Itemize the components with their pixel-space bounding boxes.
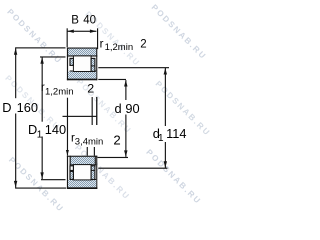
r3,4 leader right xyxy=(94,147,95,156)
d top extension line xyxy=(98,79,126,80)
left edge line xyxy=(67,156,68,189)
B right arrow xyxy=(90,30,97,33)
r3,4 leader left xyxy=(87,147,88,156)
right flange column xyxy=(91,166,95,180)
svg-text:3,4min: 3,4min xyxy=(75,137,104,148)
D1 bottom extension line xyxy=(41,179,66,180)
inner bar bottom line xyxy=(70,164,97,165)
d1 down arrow xyxy=(164,161,167,168)
d bottom extension line xyxy=(98,157,129,158)
B right extension line xyxy=(97,28,98,49)
D bottom extension line xyxy=(15,188,66,189)
d1 bottom extension line xyxy=(98,168,167,169)
top edge line xyxy=(67,48,97,49)
outer ring top bar fill xyxy=(67,49,97,56)
bottom bar top line xyxy=(70,179,97,180)
svg-text:PODSNAB.RU: PODSNAB.RU xyxy=(150,3,209,62)
svg-text:r: r xyxy=(100,38,104,50)
svg-text:114: 114 xyxy=(166,126,186,141)
svg-text:2: 2 xyxy=(140,38,146,50)
d1 dimension line lower part xyxy=(165,142,166,168)
right flange divider line xyxy=(91,65,95,66)
d up arrow xyxy=(124,80,127,87)
d dimension line upper part xyxy=(125,80,126,100)
horizontal leader H xyxy=(63,116,98,117)
svg-text:160: 160 xyxy=(17,100,38,115)
D top extension line xyxy=(15,47,65,48)
right flange divider line xyxy=(91,170,95,171)
D1 top extension line xyxy=(40,56,66,57)
roller (white square) xyxy=(73,165,91,180)
right flange column xyxy=(91,58,95,71)
inner ring top bar fill xyxy=(70,157,95,165)
leader V2 below "2" xyxy=(92,97,93,125)
D up arrow xyxy=(14,48,17,55)
outer bar bottom line xyxy=(67,55,97,56)
inner bar left edge line xyxy=(70,156,71,166)
watermark tile A top-left xyxy=(3,3,212,214)
d down arrow xyxy=(124,150,127,157)
left flange lower dotted part xyxy=(70,171,73,179)
svg-text:1,2min: 1,2min xyxy=(105,42,134,53)
svg-text:1: 1 xyxy=(37,129,43,140)
svg-text:d: d xyxy=(115,101,122,116)
svg-text:B: B xyxy=(71,15,79,27)
d1 up arrow xyxy=(164,68,167,75)
right edge line xyxy=(96,48,97,81)
svg-text:40: 40 xyxy=(83,15,96,27)
inner ring bottom bar fill xyxy=(68,71,96,78)
B dimension line xyxy=(67,31,96,32)
bar top line under roller xyxy=(70,71,97,72)
D1 dimension line lower part xyxy=(42,137,43,180)
top edge line xyxy=(67,156,97,157)
B left extension line xyxy=(67,28,68,47)
V1 down arrow xyxy=(66,150,69,156)
right edge line xyxy=(96,156,97,189)
d1 top extension line xyxy=(98,67,169,68)
roller (white square) xyxy=(73,56,91,72)
svg-text:2: 2 xyxy=(87,82,94,96)
inner bar right edge line xyxy=(95,156,96,166)
svg-text:PODSNAB.RU: PODSNAB.RU xyxy=(144,148,203,207)
D dimension line lower part xyxy=(15,114,16,188)
svg-text:1,2min: 1,2min xyxy=(45,87,74,98)
d1 dimension line upper part xyxy=(165,68,166,126)
leader V1 from r1,2min label to lower section corner xyxy=(67,98,68,156)
left edge line xyxy=(67,48,68,81)
svg-text:90: 90 xyxy=(125,101,139,116)
D down arrow xyxy=(14,181,17,188)
outer ring bottom bar fill xyxy=(68,180,96,188)
svg-text:1: 1 xyxy=(158,133,164,144)
D1 dimension line upper part xyxy=(42,57,43,122)
svg-text:2: 2 xyxy=(113,133,120,148)
svg-text:D: D xyxy=(2,100,11,115)
bottom edge line (thick) xyxy=(67,79,97,81)
left flange block white (loose ring) xyxy=(70,166,73,171)
leader V3 xyxy=(96,97,97,125)
d dimension line lower part xyxy=(125,115,126,157)
D dimension line upper part xyxy=(15,48,16,98)
bottom edge line (thick) xyxy=(67,187,97,189)
D1 down arrow xyxy=(40,172,43,179)
svg-text:140: 140 xyxy=(45,122,66,137)
left flange block (loose ring) xyxy=(70,58,73,65)
D1 up arrow xyxy=(40,57,43,64)
B left arrow xyxy=(67,30,74,33)
